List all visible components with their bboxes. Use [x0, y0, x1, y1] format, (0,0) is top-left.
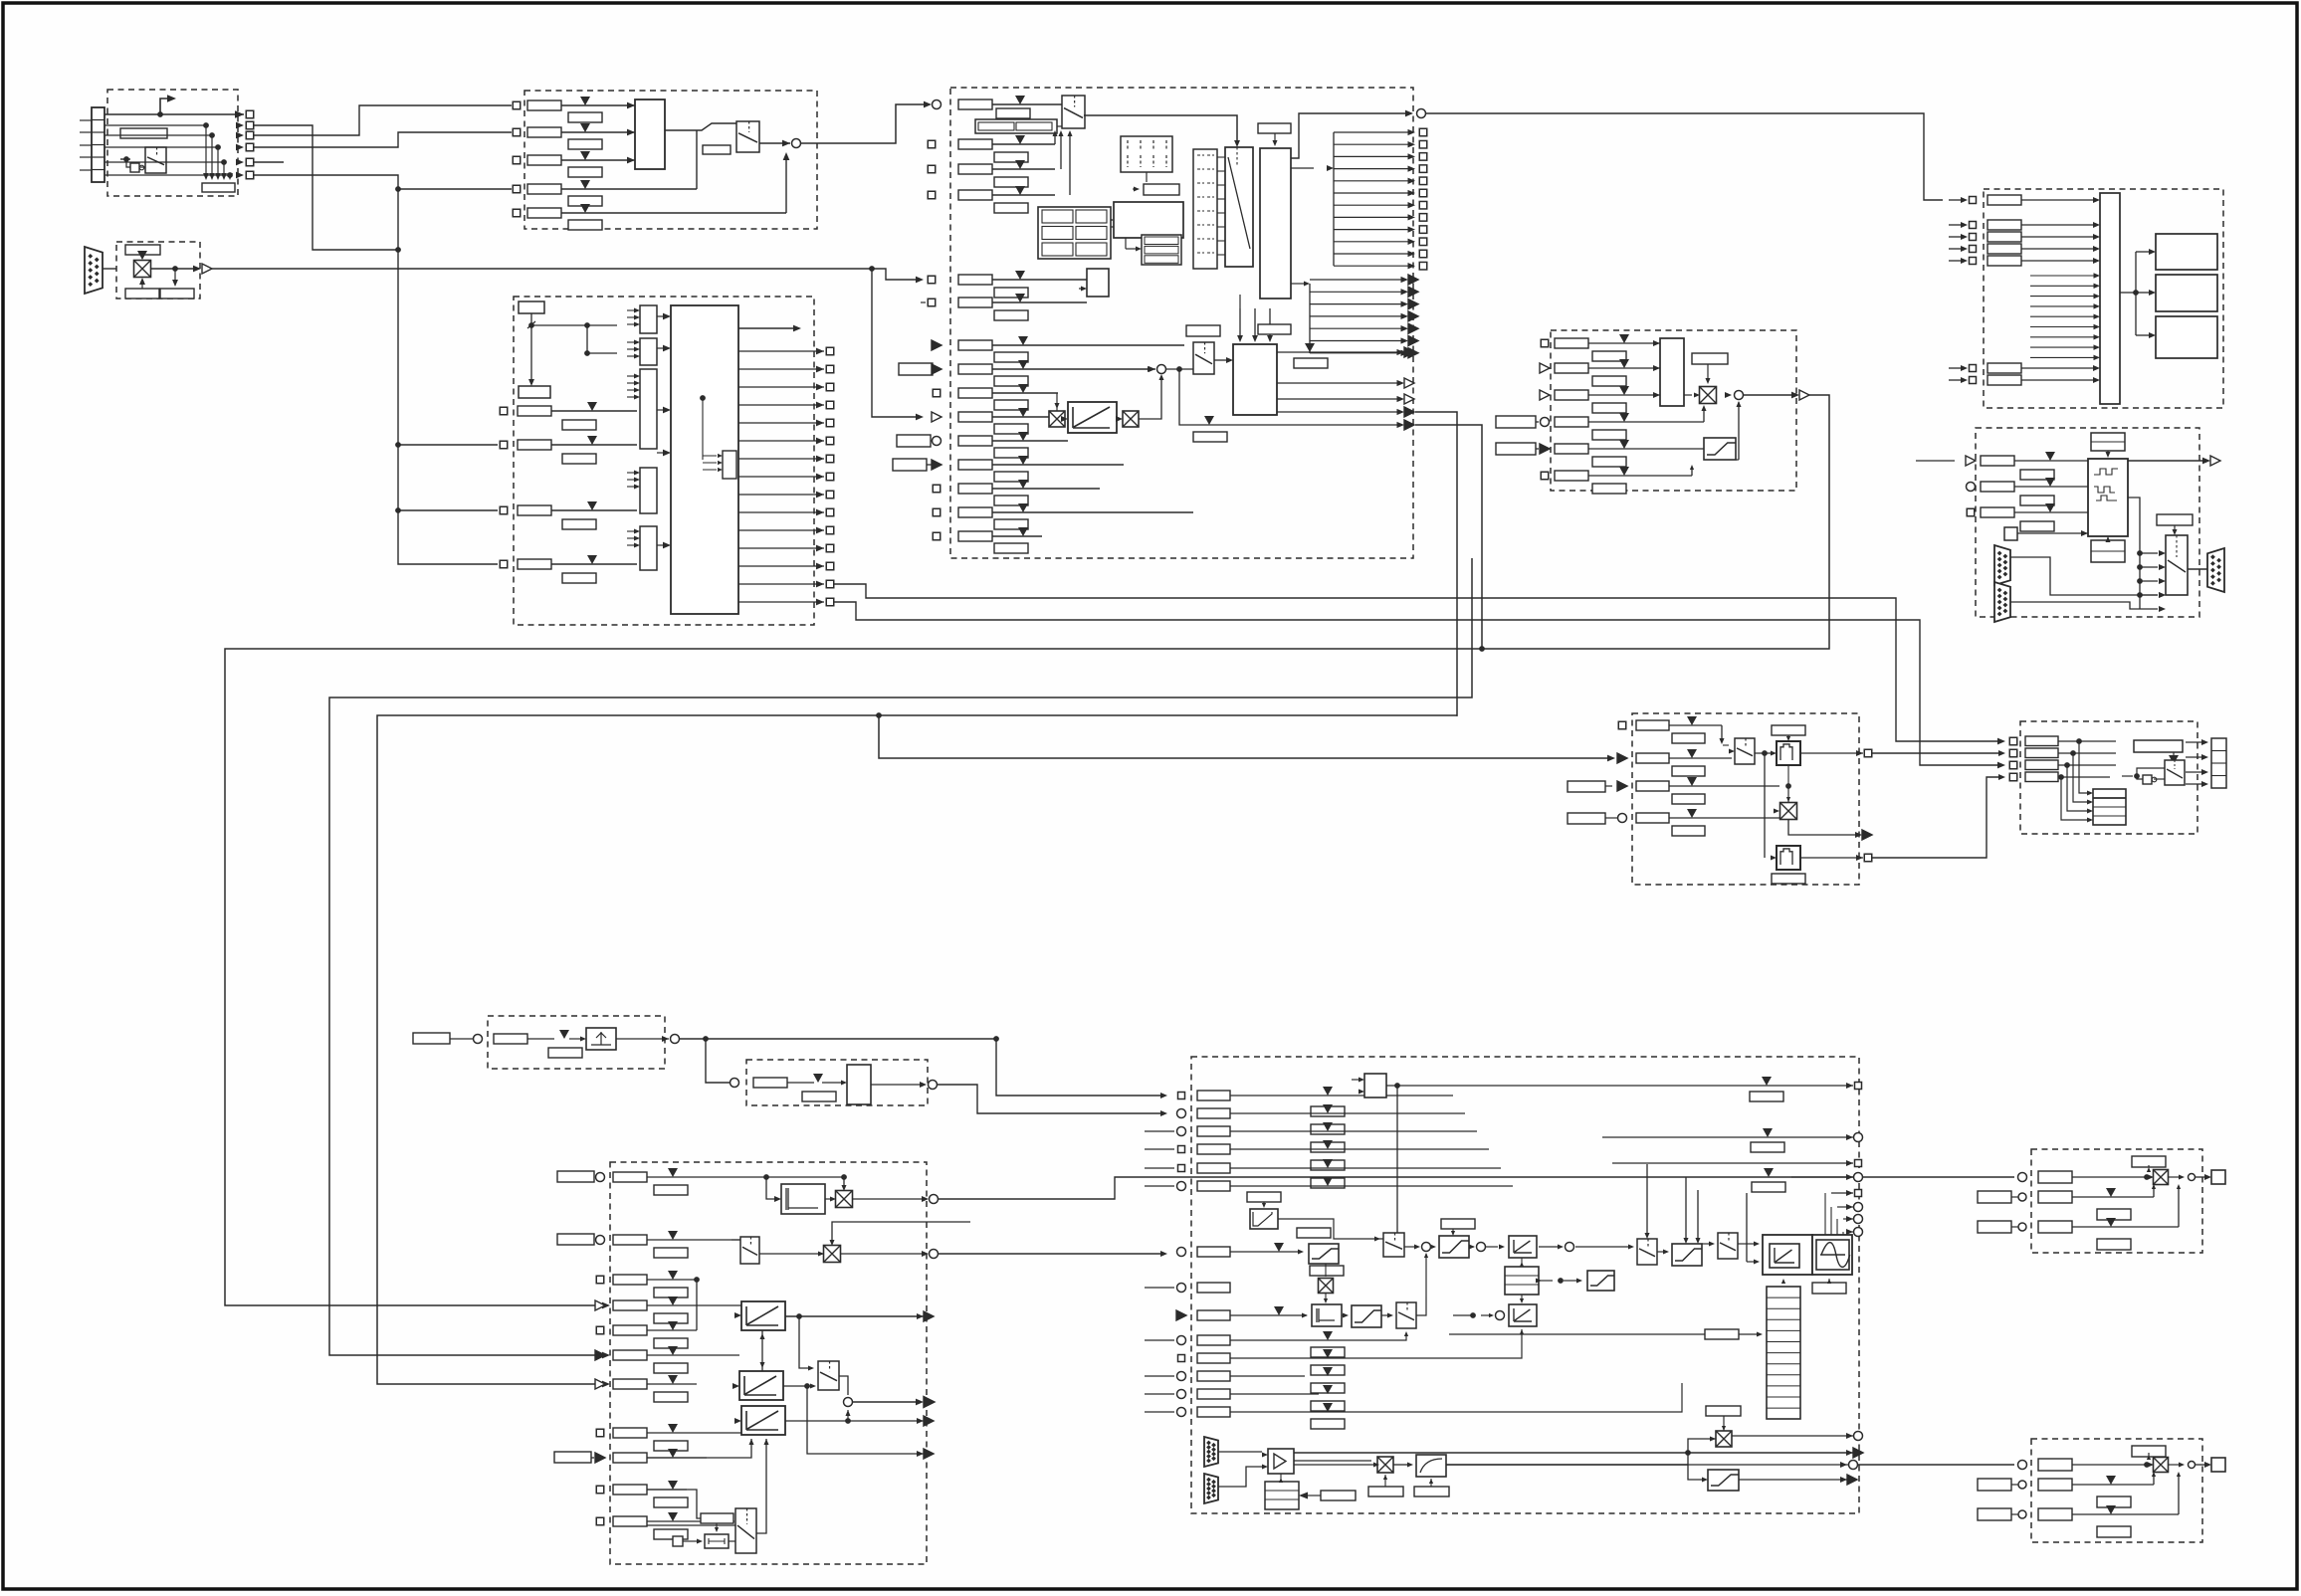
enc output switch [2166, 535, 2188, 595]
parameter pair below [125, 289, 159, 299]
integrator small [1312, 1304, 1342, 1326]
parameter top [519, 301, 544, 313]
dashed box encoder interface [1976, 428, 2199, 617]
AO row3 wire [2072, 1226, 2179, 1228]
selector output to switch [665, 123, 736, 130]
motor control input row y1174 [1178, 1165, 1185, 1172]
branch down right feed [996, 1039, 1164, 1096]
param right rows [1750, 1092, 1783, 1101]
ramp generator out triangle [853, 1401, 921, 1403]
enc input row1 triangle [1966, 456, 1976, 466]
modulator sine block [1812, 1235, 1852, 1275]
status output ports [1334, 131, 1412, 133]
row5 wire to switch [785, 157, 787, 213]
sub parameter row 5 [568, 220, 602, 230]
command switch [736, 121, 759, 152]
monitor input row y769 [2009, 761, 2017, 769]
parameter box row 1 [527, 100, 561, 110]
ramp input row y1391 [595, 1379, 605, 1389]
input port row 4 [513, 185, 521, 193]
ramp input row y1497 [596, 1486, 604, 1494]
row1 wire to switch [1669, 724, 1722, 726]
ramp1 out triangle [917, 1313, 924, 1319]
external parameter [899, 363, 933, 375]
amp triangle block [1268, 1449, 1294, 1474]
ramp input row y1286 [596, 1276, 604, 1284]
filter input row y822 [1618, 814, 1627, 823]
limiter wide block [1439, 1236, 1469, 1258]
switch row2 [740, 1237, 759, 1264]
pulse table tall [1767, 1287, 1800, 1419]
input circle box A [474, 1035, 483, 1044]
bottom long wires [1294, 1452, 1853, 1454]
PROFIBUS D-sub connector [85, 247, 103, 294]
enc small square block [2004, 527, 2017, 540]
bottom D-sub 1 [1204, 1437, 1218, 1467]
switch C [1396, 1302, 1416, 1328]
dashed box digital input processing [107, 90, 238, 196]
relay block 2 [2156, 275, 2217, 311]
dashed box fieldbus interface [116, 242, 200, 299]
sub parameter row 4 [568, 196, 602, 206]
param below filter2 [1772, 874, 1805, 884]
DO input row 4 [1949, 248, 1965, 250]
motor control input row y1101 [1178, 1093, 1185, 1099]
vertical link [1764, 753, 1766, 858]
AO ext param row3 [1978, 1508, 2011, 1520]
monitor input row y745 [2009, 737, 2017, 745]
xbox to sum wire [1139, 376, 1161, 419]
external parameter [897, 435, 931, 447]
output wire to circle [759, 142, 790, 144]
row10 wire to bottom switch [647, 1490, 732, 1518]
sum circle [1157, 365, 1166, 374]
xbox row1 [836, 1191, 853, 1208]
bottom right limiter [1708, 1470, 1739, 1491]
sub param box B [802, 1092, 836, 1101]
ramp input row y1362 [595, 1350, 605, 1360]
row wires to param stack [1230, 1095, 1453, 1097]
AO row2 wire [2072, 1196, 2154, 1198]
row2 output circle [840, 1253, 926, 1255]
dashed box digital outputs [1984, 189, 2223, 408]
bottom switch [735, 1508, 756, 1553]
long out rows right [1230, 1112, 1853, 1114]
dashed box sequence control [950, 88, 1413, 558]
selector logic block [635, 100, 665, 169]
status wires to motor control box [834, 584, 2002, 741]
limiter input row y370 [1540, 363, 1550, 373]
filter input row y729 [1618, 721, 1626, 729]
wire row2 to PID input [939, 1253, 1164, 1255]
AO param above xbox [2132, 1446, 2166, 1457]
modulator out verticals [1836, 1193, 1838, 1235]
branch ramp1 to switch [799, 1316, 812, 1368]
bottom small square [673, 1536, 683, 1546]
wire W3 y719 [377, 412, 1457, 1384]
wire DIN2 to join column [254, 125, 398, 250]
parameter right [1692, 353, 1728, 364]
param above filter1 [1772, 725, 1805, 735]
dashed box command source selector [524, 91, 817, 229]
BICO dashed grid block [1121, 136, 1172, 172]
output circle command [1417, 109, 1426, 118]
command output circle [792, 139, 801, 148]
wire table links [1125, 238, 1127, 249]
motor control input row y1383 [1177, 1372, 1186, 1381]
xbox frequency [1780, 803, 1797, 820]
filter block 2 [1777, 846, 1800, 870]
bottom switch out to ramp3 [756, 1439, 766, 1533]
sub parameter row1 [996, 108, 1030, 118]
DO input row 5 [1949, 260, 1965, 262]
bottom mini block [705, 1534, 729, 1548]
skip band block [586, 1028, 616, 1050]
limiter right small [1587, 1271, 1614, 1291]
switch to filter wire [1755, 752, 1772, 754]
monitor switch feed wires [2122, 775, 2133, 777]
sine sub parameter [1812, 1283, 1846, 1294]
terminal leads [80, 119, 92, 121]
enc input row2 circle [1967, 483, 1976, 492]
AO row2 wire [2072, 1484, 2154, 1486]
dashed box control word sequencer [514, 297, 814, 625]
min-max block [1660, 338, 1684, 406]
parameter box row 2 [527, 127, 561, 137]
motor control input row y1347 [1177, 1336, 1186, 1345]
priority parameter [703, 145, 731, 154]
wire W1b vertical feed [1415, 425, 1482, 649]
jog switch [1193, 342, 1214, 374]
dashed box frequency limiter [1551, 330, 1796, 491]
limiter block A [1309, 1244, 1339, 1264]
wires rows into selector [1054, 134, 1056, 144]
row2 xbox top feed [832, 1222, 970, 1243]
status word param above [1258, 123, 1291, 133]
AO row1 wire [2072, 1464, 2151, 1466]
limiter input row y424 [1496, 416, 1536, 428]
filter input row y790 [1617, 781, 1627, 791]
ramp3 output line [785, 1420, 927, 1422]
control word assembly block [1114, 202, 1183, 238]
limiter output [1744, 394, 1796, 396]
monitor switch [2165, 760, 2185, 785]
ramp3 to circle feed [847, 1410, 849, 1421]
PI block upper [1509, 1236, 1537, 1258]
bottom outputs [1732, 1435, 1853, 1437]
AO row3 sub param [2097, 1526, 2131, 1537]
input port row 5 [513, 209, 521, 217]
output sum circle [844, 1398, 853, 1407]
row4 wire up [696, 130, 698, 189]
input rows 5-6 ports [928, 276, 936, 284]
switch D [1637, 1239, 1657, 1265]
slip comp block [1250, 1209, 1278, 1229]
dashed box analog output [2031, 1149, 2202, 1253]
wire B out to PID input [938, 1085, 1164, 1113]
right switch [818, 1361, 839, 1390]
xbox bottom [1377, 1457, 1393, 1473]
relay drive wires [2120, 292, 2136, 294]
compare stack block [2093, 789, 2126, 825]
xbox small [1319, 1279, 1334, 1294]
parameter box row 4 [527, 184, 561, 194]
internal vertical feed [696, 1280, 698, 1330]
limit block [1704, 438, 1736, 460]
final control block [1763, 1235, 1812, 1275]
ramp1 up-down link [761, 1330, 763, 1371]
ramp input row y1529 [596, 1517, 604, 1525]
filter input row y762 [1617, 753, 1627, 763]
amp stack feed param [1321, 1491, 1356, 1500]
bottom row small blocks [701, 1513, 733, 1523]
ramp1 output line [785, 1315, 927, 1317]
ramp input row y1465 [554, 1452, 591, 1463]
fixed value table 3x2 [1038, 207, 1111, 259]
monitor output arrows [2186, 741, 2202, 743]
external parameter left [413, 1033, 450, 1044]
limiter block B [1352, 1305, 1381, 1327]
motor control input row y1119 [1177, 1109, 1186, 1118]
lower sub-parameter column [1311, 1347, 1345, 1357]
bus setpoint open triangle [202, 264, 212, 274]
dashed box analog output [2031, 1439, 2202, 1542]
row1 output circle [852, 1198, 926, 1200]
filter selector switch [1735, 738, 1755, 764]
box B output [871, 1084, 924, 1086]
monitor NOT gate [2143, 775, 2152, 784]
motor control input row y1137 [1177, 1127, 1186, 1136]
status triangle fan [1309, 284, 1311, 353]
encoder eval block [2088, 459, 2128, 536]
sum circle [1735, 391, 1744, 400]
AO xbox [2154, 1170, 2169, 1185]
AO row3 wire [2072, 1513, 2179, 1515]
wire command status to digital output box [1426, 113, 1943, 200]
wire A to B and onward [680, 1038, 997, 1040]
relay block 3 [2156, 316, 2217, 358]
external parameter [893, 459, 927, 471]
parameter stack 3 [1505, 1267, 1539, 1295]
out row2 [1602, 1136, 1853, 1138]
parameter bottom [519, 386, 550, 398]
DO input row 1 [1949, 199, 1965, 201]
wire W3b to smoothing box [1456, 715, 1458, 716]
sub parameter row 1 [568, 112, 602, 122]
status output ports [738, 350, 824, 352]
ext rects rows 3-4 [1568, 781, 1605, 792]
lower row long wires [1230, 1333, 1406, 1340]
filter1 output port [1800, 752, 1863, 754]
status word block tall [1260, 148, 1291, 299]
enc input row1 stub [1916, 460, 1955, 462]
enc D-sub internal 2 [1994, 582, 2010, 622]
NOT gate [130, 163, 139, 172]
bit input arrows [627, 309, 637, 311]
input rows 2-4 ports [928, 140, 936, 148]
AO row1 wire [2072, 1176, 2151, 1178]
monitor input row y781 [2009, 773, 2017, 781]
parameter under branch [1193, 432, 1227, 442]
xbox out to triangle [1788, 820, 1859, 835]
monitor output stack [2211, 738, 2226, 788]
parameter box row 3 [527, 155, 561, 165]
motor control input row y1419 [1177, 1408, 1186, 1417]
selector switch top [1062, 96, 1085, 128]
bottom right xbox [1716, 1431, 1732, 1447]
parameter above block [1258, 324, 1291, 334]
scaling block [847, 1065, 871, 1104]
enc switch input arrows [2139, 553, 2141, 609]
wire to sequencer box [801, 104, 929, 143]
AO ext param row3 [1978, 1221, 2011, 1233]
box A output [616, 1038, 669, 1040]
parameter P0701 [120, 128, 167, 138]
input circle box B [731, 1079, 739, 1088]
switch out to circle [839, 1376, 848, 1395]
out row4 [1791, 1176, 1853, 1178]
main setpoint xbox [1049, 411, 1065, 427]
long vertical x400 feeds [254, 175, 498, 564]
selector output wire to MUX [1084, 115, 1237, 143]
AO ext param row2 [1978, 1479, 2011, 1491]
wire frequency setpoint loop W1 [225, 395, 1829, 1305]
amp out wire [1294, 1460, 1371, 1462]
branch down to output [1179, 369, 1401, 425]
PI block lower [1509, 1304, 1537, 1326]
motor control input row y1258 [1177, 1248, 1186, 1257]
AO param above xbox [2132, 1156, 2166, 1167]
parameter above jog switch [1186, 325, 1220, 336]
limiter E [1672, 1244, 1702, 1266]
wires filter outputs to PID box [1872, 752, 2002, 754]
scale xbox [1700, 387, 1717, 404]
MUX block [1225, 147, 1253, 267]
row9 wire to ramp3 [647, 1439, 751, 1458]
dot feeds [1558, 1278, 1564, 1284]
ramp input row y1440 [596, 1429, 604, 1437]
xbox row2 [824, 1246, 841, 1263]
DO word block [2100, 193, 2120, 404]
ramp input row y1246 [557, 1234, 594, 1245]
enc output D-sub external [2207, 548, 2224, 592]
terminal block X1 digital inputs [92, 107, 105, 182]
sum circle 4 [1566, 1243, 1574, 1252]
top small block [1364, 1074, 1386, 1097]
out row3 [1612, 1162, 1853, 1164]
ramp block 1 [741, 1301, 785, 1330]
AO row3 sub param [2097, 1239, 2131, 1250]
ramp2 branch to out [807, 1386, 924, 1454]
control logic main block [671, 305, 738, 614]
parameter telegram [125, 245, 160, 255]
limiter input row y478 [1541, 472, 1549, 480]
block top feeds [1239, 308, 1241, 338]
monitor input row y757 [2009, 749, 2017, 757]
ramp input row y1337 [596, 1326, 604, 1334]
output arrow top [738, 327, 796, 329]
sub parameter row 3 [568, 167, 602, 177]
enc input row3 square [1967, 508, 1975, 516]
limiter row wires [1588, 342, 1660, 344]
monitor switch param arrow [2173, 752, 2175, 756]
fixed frequency selector block [1087, 269, 1109, 297]
motor control input row y1192 [1177, 1182, 1186, 1191]
enc sub block below [2091, 540, 2125, 562]
ramp input row y1312 [595, 1300, 605, 1310]
row11 wire [647, 1524, 735, 1526]
sub parameter row 2 [568, 139, 602, 149]
row wire stubs [647, 1176, 781, 1178]
wire with branch [530, 313, 532, 379]
switch top mid [1383, 1233, 1404, 1257]
motor control input row y1294 [1177, 1284, 1186, 1293]
dashed box actual value filter [1632, 713, 1859, 885]
parameter under grid [1146, 172, 1148, 182]
row wires [992, 368, 1155, 370]
filter2 output port [1800, 857, 1863, 859]
AO sum circle [2189, 1174, 2196, 1181]
DIN output ports [236, 111, 244, 118]
ramp input row y1183 [557, 1171, 594, 1182]
row2 wire to switch [1669, 757, 1732, 759]
wire W2 y701 [329, 558, 1472, 1355]
stack input wires [2079, 741, 2087, 793]
status parameter r0722 [202, 183, 235, 192]
AO output square [2196, 1176, 2208, 1178]
output connectors right edge [1397, 349, 1405, 355]
status to output circle wire [1291, 113, 1407, 158]
input port row 2 [513, 128, 521, 136]
row3 wire to xbox [1669, 785, 1779, 787]
wire bus setpoint out [151, 268, 195, 270]
AO xbox [2154, 1458, 2169, 1473]
enc top parameter double [2091, 433, 2125, 451]
enc output wire [2128, 460, 2207, 462]
limiter input row y451 [1496, 443, 1536, 455]
sum to switch wire [1166, 368, 1193, 370]
amp parameter stack [1265, 1482, 1299, 1509]
setpoint source rows (lower left of box) [932, 340, 941, 350]
double parameter wide [975, 119, 1057, 133]
internal feedback block [723, 451, 736, 479]
strip to MUX stubs [1217, 156, 1225, 158]
ramp block [1068, 402, 1117, 433]
AO input circle row1 [2018, 1461, 2027, 1470]
DO middle fan arrows [2030, 275, 2097, 277]
branch down to box B [706, 1039, 730, 1083]
wire row1 to analog out1 [939, 1177, 2014, 1199]
wire bus setpoint to sequencer [212, 269, 921, 417]
bottom D-sub 2 [1204, 1474, 1218, 1503]
status output fan vertical [1333, 132, 1335, 266]
wires DIN ports to command source box [254, 105, 512, 135]
dashed box setpoint channel ramp generator [610, 1162, 927, 1564]
output jump arrow [160, 99, 171, 114]
enc right parameter [2157, 514, 2193, 525]
integrator block row1 [781, 1184, 825, 1214]
multiplier xbox [134, 261, 151, 278]
AO ext param row2 [1978, 1191, 2011, 1203]
fan from modulator block [1852, 1192, 1876, 1194]
switch F [1718, 1233, 1738, 1259]
DO input row 3 [1949, 236, 1965, 238]
limiter input row y345 [1541, 339, 1549, 347]
AO input circle row1 [2018, 1173, 2027, 1182]
motor control input row y1155 [1178, 1146, 1185, 1153]
DO input row 2 [1949, 224, 1965, 226]
enc D-sub internal 1 [1994, 545, 2010, 585]
